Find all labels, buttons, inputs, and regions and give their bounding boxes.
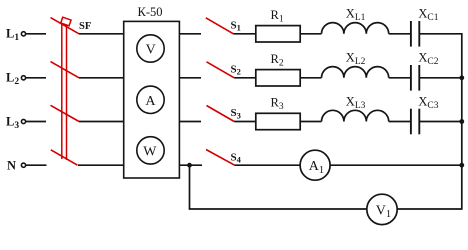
capacitor XC1 (410, 21, 412, 47)
wire N terminal to SF (26, 164, 47, 166)
wire XC2 to right bus (420, 77, 462, 79)
junction dot bus row 3 (459, 119, 464, 124)
wire S2 to R2 (234, 77, 256, 79)
resistor R2 (256, 70, 300, 86)
wire S1 to R1 (233, 33, 255, 35)
switch S3 blade (207, 106, 235, 122)
wire XL3 to XC3 (389, 121, 411, 123)
junction dot bus row 4 (459, 163, 464, 168)
breaker SF linkage bar left (61, 24, 63, 160)
wire L3 terminal to SF (26, 121, 46, 123)
voltmeter V in K-50 (137, 35, 164, 62)
wire R2 to XL2 (300, 77, 321, 79)
capacitor XC3 (410, 109, 412, 135)
wire box to S1 (179, 33, 201, 35)
junction dot N row (187, 163, 192, 168)
node L3 terminal (21, 119, 25, 123)
svg-text:N: N (7, 158, 16, 172)
wire SF to box row 1 (79, 33, 124, 35)
wire V1 to right bus (397, 208, 462, 210)
switch S1 blade (206, 18, 234, 34)
node L1 terminal (21, 32, 25, 36)
wire L2 terminal to SF (26, 77, 46, 79)
right bus vertical wire (461, 33, 463, 210)
wire box to S3 (179, 121, 201, 123)
breaker SF blade pole 2 (51, 62, 80, 78)
resistor R1 (256, 26, 300, 42)
breaker SF blade pole 1 (51, 18, 80, 34)
inductor XL1 (322, 23, 389, 34)
wire N junction down (189, 165, 191, 209)
wire SF to box row 4 (78, 164, 124, 166)
wire R3 to XL3 (300, 121, 321, 123)
breaker SF blade pole 4 (51, 150, 78, 165)
breaker SF handle square (61, 17, 71, 26)
wire box to N junction (179, 164, 202, 166)
wire SF to box row 3 (79, 121, 124, 123)
capacitor XC2 (410, 65, 412, 91)
wire bottom to V1 (189, 208, 367, 210)
wire SF to box row 2 (79, 77, 124, 79)
wire XL1 to XC1 (389, 33, 411, 35)
wire A1 to right bus (330, 164, 462, 166)
wire XC1 to right bus (420, 33, 462, 35)
svg-text:W: W (143, 144, 157, 159)
ammeter A in K-50 (137, 86, 164, 113)
node L2 terminal (21, 76, 25, 80)
wire S4 to A1 (235, 164, 301, 166)
wire XL2 to XC2 (389, 77, 411, 79)
switch S2 blade (207, 62, 235, 78)
inductor XL3 (322, 110, 389, 121)
resistor R3 (256, 113, 300, 129)
measuring set K-50 box (124, 21, 180, 178)
wattmeter W in K-50 (137, 137, 164, 164)
breaker SF linkage bar right (66, 25, 68, 161)
inductor XL2 (322, 67, 389, 78)
svg-text:SF: SF (79, 21, 91, 32)
svg-text:К-50: К-50 (138, 5, 163, 19)
breaker SF blade pole 3 (51, 105, 80, 121)
switch S4 blade (206, 150, 235, 166)
svg-text:V: V (146, 43, 156, 58)
wire L1 terminal to SF (26, 33, 46, 35)
wire S3 to R3 (234, 121, 256, 123)
junction dot bus row 2 (459, 75, 464, 80)
svg-text:A: A (145, 94, 156, 109)
wire R1 to XL1 (300, 33, 321, 35)
wire XC3 to right bus (420, 121, 462, 123)
node N terminal (21, 163, 25, 167)
voltmeter V1 (367, 194, 397, 224)
wire box to S2 (179, 77, 201, 79)
ammeter A1 (300, 150, 330, 180)
